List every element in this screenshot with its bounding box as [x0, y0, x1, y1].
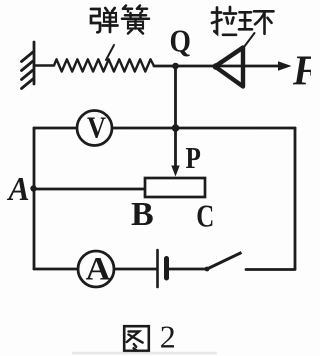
- switch pivot dot: [205, 267, 210, 272]
- scan smudge under caption: [72, 352, 217, 355]
- arrowhead of wiper P: [171, 166, 179, 177]
- battery short thick plate: [164, 259, 169, 279]
- wire left vertical: [33, 128, 36, 269]
- wire Q down to junction: [174, 66, 177, 128]
- svg-text:2: 2: [160, 318, 176, 354]
- switch lever (open): [207, 253, 242, 270]
- wire bottom left to battery: [34, 268, 156, 271]
- node Q dot: [172, 63, 179, 70]
- wire spring to force arrow: [154, 65, 286, 68]
- svg-text:A: A: [86, 251, 111, 287]
- svg-text:P: P: [186, 142, 201, 176]
- leader line for spring label: [106, 45, 114, 60]
- junction dot at wiper branch: [172, 124, 180, 132]
- ammeter A1 circle: [78, 251, 114, 287]
- wire right vertical: [294, 128, 297, 269]
- caption 图 (figure): [124, 326, 149, 351]
- svg-text:F: F: [292, 47, 311, 94]
- node A dot: [30, 185, 36, 191]
- wire top horizontal (voltmeter row): [34, 127, 295, 130]
- label 拉 (pull char 1): [212, 7, 236, 35]
- svg-text:Q: Q: [170, 24, 191, 59]
- wire switch to bottom right corner: [246, 268, 295, 271]
- voltmeter V1 circle: [77, 111, 112, 146]
- pull ring (triangle): [215, 48, 243, 87]
- wire wiper arrow into rheostat: [174, 128, 177, 168]
- wire node A to rheostat terminal B: [34, 188, 145, 191]
- pull ring apex knob: [213, 63, 220, 70]
- svg-text:V: V: [87, 111, 106, 145]
- svg-text:C: C: [196, 199, 214, 235]
- arrowhead of force F: [278, 61, 292, 71]
- spring (elastic) with lead wire from wall: [34, 59, 154, 71]
- svg-text:B: B: [131, 196, 154, 233]
- leader line for pull-ring label: [244, 33, 255, 47]
- label 簧 (spring char 2): [122, 6, 149, 34]
- rheostat R (slide box): [145, 178, 205, 197]
- label 环 (pull char 2): [239, 11, 274, 34]
- wall (fixed support): [22, 42, 35, 89]
- svg-text:A: A: [7, 171, 30, 208]
- wire battery to switch: [168, 268, 207, 271]
- battery long plate: [156, 250, 159, 287]
- label 弹 (spring char 1): [91, 8, 118, 32]
